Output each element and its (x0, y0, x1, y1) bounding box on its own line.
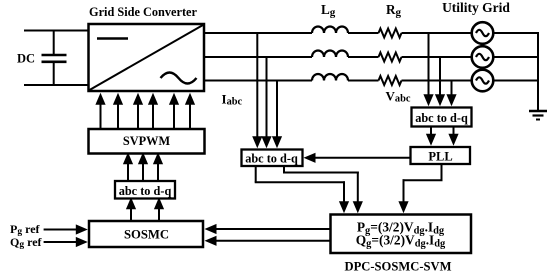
wire phase b converter to inductor (204, 56, 312, 58)
wire PLL to power calc (398, 164, 442, 213)
svg-text:abc to d-q: abc to d-q (119, 184, 172, 198)
resistor Rg phase a (379, 29, 402, 38)
svg-text:Qg ref: Qg ref (10, 235, 43, 250)
wire phase b inductor to resistor (348, 56, 379, 58)
wire Iabc tap phase a (256, 33, 258, 137)
resistor Rg phase b (379, 53, 402, 62)
block power calculator Pg Qg (331, 215, 472, 254)
wire PLL theta to abc to d-q (current) (315, 157, 411, 159)
wire neutral bus (537, 32, 539, 111)
wire phase c inductor to resistor (348, 80, 379, 82)
svg-text:SOSMC: SOSMC (124, 228, 169, 242)
converter U1 (grid side converter) (89, 24, 205, 91)
svg-text:SVPWM: SVPWM (123, 134, 171, 148)
wire Vdq to PLL 1 (430, 127, 432, 135)
wire gate pulse 5 SVPWM to converter (173, 104, 175, 129)
svg-text:Iabc: Iabc (222, 92, 243, 108)
inductor Lg phase c (312, 74, 348, 81)
block SVPWM (89, 129, 205, 154)
wire Pg to SOSMC (216, 228, 331, 230)
svg-text:Grid Side Converter: Grid Side Converter (89, 5, 197, 19)
wire phase b resistor to source (402, 56, 473, 58)
resistor Rg phase c (379, 76, 402, 85)
svg-text:abc to d-q: abc to d-q (415, 111, 468, 125)
wire Vabc tap phase c (451, 81, 453, 96)
svg-text:Utility Grid: Utility Grid (442, 0, 510, 15)
block PLL (411, 147, 471, 164)
block abc to d-q (current) (242, 150, 303, 167)
block abc to d-q (control) (115, 181, 175, 199)
wire source b to neutral bus (493, 56, 538, 58)
wire Pg ref input (44, 229, 77, 231)
wire gate pulse 2 SVPWM to converter (117, 104, 119, 129)
capacitor C (DC link) (42, 31, 67, 86)
wire Vabc tap phase a (428, 33, 430, 95)
wire Qg ref input (44, 241, 77, 243)
svg-text:Rg: Rg (386, 2, 402, 19)
wire SOSMC Vq to dq-abc (158, 208, 160, 221)
block abc to d-q (voltage) (412, 108, 472, 127)
wire source c to neutral bus (493, 80, 538, 82)
wire DC bottom rail (24, 84, 89, 86)
svg-text:DPC-SOSMC-SVM: DPC-SOSMC-SVM (344, 259, 451, 273)
wire phase a converter to inductor (204, 32, 312, 34)
svg-text:abc to d-q: abc to d-q (245, 151, 298, 165)
inductor Lg phase b (312, 51, 348, 58)
wire Vabc tap phase b (439, 57, 441, 95)
wire dq-abc to SVPWM 2 (142, 163, 144, 181)
wire Qg to SOSMC (216, 240, 331, 242)
AC source phase c (472, 70, 494, 92)
wire Iabc tap phase c (276, 81, 278, 138)
wire gate pulse 6 SVPWM to converter (189, 104, 191, 129)
wire Iabc tap phase b (266, 57, 268, 137)
wire Iqg to power calc (283, 166, 363, 213)
wire phase a inductor to resistor (348, 32, 379, 34)
wire Vdq to PLL 2 (453, 127, 455, 135)
wire source a to neutral bus (493, 32, 538, 34)
wire phase c converter to inductor (204, 80, 312, 82)
svg-text:Lg: Lg (321, 2, 336, 19)
wire gate pulse 3 SVPWM to converter (137, 104, 139, 129)
svg-text:Vabc: Vabc (386, 89, 411, 105)
inductor Lg phase a (312, 27, 348, 33)
wire Idg to power calc (255, 166, 349, 213)
wire phase c resistor to source (402, 80, 473, 82)
wire gate pulse 4 SVPWM to converter (152, 104, 154, 129)
wire SOSMC Vd to dq-abc (130, 208, 132, 221)
block SOSMC (89, 221, 203, 247)
AC source phase b (472, 46, 494, 68)
AC source phase a (472, 22, 494, 44)
wire dq-abc to SVPWM 3 (157, 163, 159, 181)
ground (529, 111, 547, 120)
svg-text:DC: DC (17, 52, 35, 66)
wire phase a resistor to source (402, 32, 473, 34)
wire gate pulse 1 SVPWM to converter (100, 104, 102, 129)
svg-text:PLL: PLL (428, 149, 452, 163)
wire DC top rail (24, 30, 89, 32)
wire dq-abc to SVPWM 1 (127, 163, 129, 181)
